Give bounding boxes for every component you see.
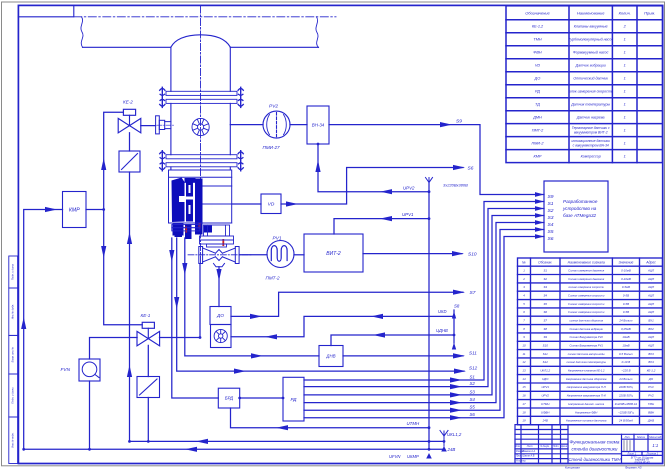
svg-text:UРV2: UРV2	[541, 394, 549, 398]
svg-text:Форвакуумный насос: Форвакуумный насос	[573, 51, 609, 55]
svg-text:ВХ2: ВХ2	[648, 327, 654, 331]
svg-text:PV1: PV1	[648, 385, 654, 389]
svg-text:Подп. и дата: Подп. и дата	[11, 263, 15, 280]
svg-text:24 Вольт: 24 Вольт	[618, 377, 633, 381]
wire cross to DO sensor	[218, 267, 220, 307]
svg-text:VD: VD	[535, 64, 541, 68]
svg-text:Значение: Значение	[619, 261, 634, 265]
svg-text:Взам. инв.№: Взам. инв.№	[11, 347, 15, 363]
svg-text:Оптический датчик: Оптический датчик	[573, 77, 608, 81]
left margin graph boxes	[9, 256, 18, 464]
svg-text:Подп.: Подп.	[553, 445, 559, 448]
speed measuring unit RD box	[283, 377, 304, 421]
svg-text:КЕ-1: КЕ-1	[141, 313, 151, 318]
svg-text:Сигнал измерения давления: Сигнал измерения давления	[568, 277, 604, 281]
svg-text:АЦП: АЦП	[647, 285, 655, 289]
wire UKD to rotation sensor	[231, 316, 454, 336]
svg-text:сигнал датчика температуры: сигнал датчика температуры	[566, 360, 606, 364]
svg-text:0,05мВ: 0,05мВ	[621, 327, 631, 331]
svg-text:1: 1	[624, 38, 626, 42]
wire KE-2 drain riser	[129, 133, 131, 442]
svg-text:Сигнал измерения скорости: Сигнал измерения скорости	[568, 310, 605, 314]
bellows box under KE-2	[119, 151, 140, 172]
vessel flange pair 2	[160, 151, 244, 171]
wire BRD to RD	[240, 397, 283, 399]
svg-text:UДНВ: UДНВ	[436, 328, 448, 333]
svg-text:S7: S7	[470, 290, 476, 296]
svg-text:Датчик нагрева: Датчик нагрева	[576, 116, 605, 120]
svg-text:UКМР: UКМР	[407, 454, 419, 459]
svg-text:VD: VD	[268, 201, 275, 207]
vessel left nozzle flange	[156, 116, 171, 134]
svg-text:Дата: Дата	[560, 446, 568, 448]
svg-text:ВИТ-2: ВИТ-2	[326, 251, 341, 257]
svg-text:0-5В: 0-5В	[623, 293, 629, 297]
svg-text:ДО: ДО	[216, 313, 224, 318]
wire KMP to air riser	[86, 209, 104, 211]
ionization vacuum meter VN-34 box	[307, 106, 329, 144]
svg-text:1: 1	[624, 64, 626, 68]
svg-text:БРД: БРД	[225, 396, 234, 401]
svg-text:0-10мВ: 0-10мВ	[621, 268, 631, 272]
svg-text:UКD: UКD	[438, 309, 447, 314]
wire S12 from pump	[177, 238, 464, 371]
svg-text:базе ATMega32: базе ATMega32	[563, 213, 597, 218]
svg-text:ФВН: ФВН	[533, 51, 542, 55]
wire S4 from RD to U1	[304, 223, 544, 403]
wire compressor air to KE-2 actuator	[104, 112, 143, 324]
svg-text:Иванов А.А.: Иванов А.А.	[523, 450, 537, 453]
svg-text:Подп. и дата: Подп. и дата	[11, 387, 15, 404]
svg-text:S3: S3	[548, 215, 554, 221]
svg-text:S3: S3	[543, 285, 547, 289]
supply line 24V	[24, 448, 444, 450]
wire KE-1 to cross fitting	[160, 264, 201, 338]
wire vessel to PV2	[230, 124, 263, 126]
valve KE-1	[137, 322, 160, 346]
svg-text:24 В/50мА: 24 В/50мА	[618, 419, 633, 423]
svg-text:ТМН: ТМН	[533, 38, 542, 42]
svg-text:S1: S1	[543, 268, 547, 272]
svg-text:ПМИ-2: ПМИ-2	[531, 142, 544, 146]
svg-text:ДНВ: ДНВ	[647, 419, 654, 423]
svg-text:Напряжение двигат. насоса: Напряжение двигат. насоса	[568, 402, 604, 406]
svg-text:Инв.№ подл.: Инв.№ подл.	[11, 432, 15, 448]
svg-text:S6: S6	[543, 310, 547, 314]
svg-text:UРV1: UРV1	[541, 385, 549, 389]
signal S8 riser	[453, 310, 455, 343]
svg-text:0-5В: 0-5В	[623, 302, 629, 306]
svg-text:S3: S3	[470, 389, 476, 394]
svg-text:РД: РД	[535, 90, 540, 94]
svg-text:S5: S5	[470, 405, 476, 410]
svg-text:PV1: PV1	[273, 236, 282, 242]
svg-text:ПМИ-27: ПМИ-27	[263, 145, 281, 150]
svg-text:АЦП: АЦП	[647, 268, 655, 272]
svg-text:Напряжение вакуумметра П-П: Напряжение вакуумметра П-П	[567, 385, 606, 389]
wire KE-2 to vessel nozzle	[141, 125, 156, 127]
svg-text:220В 50Гц: 220В 50Гц	[618, 385, 633, 389]
svg-text:Блок измерения скорости: Блок измерения скорости	[569, 90, 613, 94]
TMN lower dark parts	[175, 224, 213, 239]
vessel walls upper	[171, 47, 230, 170]
svg-text:Сигнал датчика вибрации: Сигнал датчика вибрации	[569, 327, 603, 331]
wire S1 from RD to U1	[304, 202, 544, 381]
wire pump to BRD	[172, 238, 219, 398]
valve KE-2	[118, 109, 141, 133]
vessel sight glass viewport	[192, 118, 209, 135]
svg-text:10: 10	[522, 344, 526, 348]
svg-text:АЦП: АЦП	[647, 335, 655, 339]
svg-text:24В: 24В	[542, 419, 548, 423]
svg-text:КЕ-2: КЕ-2	[123, 100, 133, 105]
power source symbol 3x220V	[426, 178, 433, 184]
svg-text:Сигнал Вакуумметра PV2: Сигнал Вакуумметра PV2	[570, 335, 604, 339]
svg-text:S12: S12	[543, 360, 549, 364]
vessel flange pair 1	[160, 87, 244, 107]
svg-text:1:1: 1:1	[652, 443, 658, 448]
svg-text:S5: S5	[548, 229, 554, 235]
svg-text:S2: S2	[470, 381, 476, 386]
svg-text:ТД: ТД	[535, 103, 540, 107]
svg-text:Масштаб: Масштаб	[649, 435, 662, 439]
wire PV1 to VIT-2	[294, 254, 304, 256]
wire KE-1 drain riser	[147, 345, 149, 441]
svg-text:КМР: КМР	[69, 207, 80, 213]
svg-text:S5: S5	[543, 302, 547, 306]
svg-text:12: 12	[522, 360, 526, 364]
svg-text:S4: S4	[470, 397, 476, 402]
svg-text:S2: S2	[543, 277, 547, 281]
wire S10 from VIT-2	[363, 253, 462, 255]
svg-text:Сигнал измерения скорости: Сигнал измерения скорости	[568, 302, 605, 306]
wire FVN discharge down	[89, 381, 91, 449]
maintenance red marks	[185, 224, 224, 247]
svg-text:1: 1	[624, 77, 626, 81]
svg-text:S6: S6	[468, 166, 474, 172]
svg-text:0-5В: 0-5В	[623, 310, 629, 314]
svg-text:S9: S9	[543, 335, 547, 339]
svg-text:ВХ3: ВХ3	[648, 352, 654, 356]
ceiling axis dash-dot line	[74, 16, 336, 18]
wire S7 from DO	[231, 292, 463, 316]
UKL supply antenna symbol	[440, 431, 448, 442]
vessel axis dash-dot	[200, 6, 202, 264]
svg-text:Датчик температуры: Датчик температуры	[570, 103, 610, 107]
thermocouple gauge PV1 (PMT-2)	[267, 241, 294, 268]
ceiling slab top-left box	[18, 5, 73, 16]
svg-text:Разработанное: Разработанное	[563, 199, 598, 204]
svg-text:19: 19	[522, 419, 526, 423]
break line left	[81, 17, 83, 48]
svg-text:ВХ4: ВХ4	[648, 360, 654, 364]
wire UPV1 to VIT-2	[334, 219, 429, 234]
svg-text:с вакуумметром ВН-34: с вакуумметром ВН-34	[573, 144, 609, 148]
svg-text:сигнал измерения скорости: сигнал измерения скорости	[568, 286, 604, 289]
svg-text:Обознач.: Обознач.	[538, 261, 552, 265]
wire S3 from RD to U1	[304, 216, 544, 395]
svg-text:0-10мВ: 0-10мВ	[621, 277, 631, 281]
svg-text:АЦП: АЦП	[647, 293, 655, 297]
svg-text:Адрес: Адрес	[645, 261, 656, 265]
svg-text:2: 2	[522, 277, 525, 281]
parts list table	[506, 6, 663, 163]
svg-text:ФВН: ФВН	[648, 410, 655, 414]
svg-text:ДМН: ДМН	[532, 116, 542, 120]
svg-text:Датчик вибрации: Датчик вибрации	[575, 64, 606, 68]
svg-text:24 Вольт: 24 Вольт	[618, 319, 633, 323]
ceiling bottom edge	[83, 46, 319, 48]
title block	[515, 425, 663, 464]
compressor KMP box	[63, 192, 87, 228]
vacuum chamber vessel dome	[171, 35, 230, 47]
svg-text:S1: S1	[548, 201, 554, 207]
svg-text:18: 18	[522, 410, 526, 414]
svg-text:ПМТ-2: ПМТ-2	[266, 276, 280, 281]
svg-text:0-10 В: 0-10 В	[622, 360, 631, 364]
svg-text:0-5 Вольт: 0-5 Вольт	[619, 352, 634, 356]
svg-text:Масса: Масса	[637, 435, 645, 439]
svg-text:UPV1: UPV1	[402, 212, 414, 217]
svg-text:Листов 1: Листов 1	[645, 452, 658, 456]
svg-text:Н.контр.: Н.контр.	[516, 459, 526, 462]
svg-text:~220В 50Гц: ~220В 50Гц	[618, 410, 634, 414]
svg-text:24В: 24В	[447, 447, 456, 452]
wire UTMN to BRD	[231, 408, 430, 428]
svg-text:UФВН: UФВН	[541, 410, 550, 414]
svg-text:UТМН: UТМН	[407, 421, 421, 426]
svg-text:UКЛ1,2: UКЛ1,2	[540, 369, 550, 373]
control line UKL1,2	[130, 440, 445, 442]
svg-text:ДО: ДО	[648, 377, 654, 381]
svg-text:группа АС-41: группа АС-41	[634, 461, 650, 464]
svg-text:сигнал датчика напора воды: сигнал датчика напора воды	[568, 352, 605, 356]
svg-text:Изм.: Изм.	[516, 446, 521, 448]
svg-text:Компрессор: Компрессор	[581, 154, 601, 158]
svg-text:Формат А3: Формат А3	[625, 466, 642, 470]
wire PV2 to VN-34	[290, 124, 307, 126]
svg-text:Турбомолекулярный насос: Турбомолекулярный насос	[568, 38, 613, 42]
ATMega32 device box U1	[544, 181, 608, 252]
svg-text:Термопарные датчики с: Термопарные датчики с	[572, 126, 610, 130]
svg-text:Сигнал измерения давления: Сигнал измерения давления	[568, 268, 604, 272]
wire pump to VD	[232, 203, 261, 205]
signal list table	[518, 258, 663, 425]
svg-text:1: 1	[624, 154, 626, 158]
svg-text:S9: S9	[548, 194, 554, 200]
bellows box under KE-1	[137, 377, 160, 398]
power bus 3x220V	[428, 183, 430, 449]
svg-text:РД: РД	[291, 397, 298, 402]
svg-text:PV2: PV2	[269, 104, 278, 110]
svg-text:Лист 1: Лист 1	[626, 452, 636, 456]
svg-text:ДО: ДО	[534, 77, 541, 81]
svg-text:Напряжение питания датчиков: Напряжение питания датчиков	[566, 419, 607, 423]
svg-text:Наименование сигнала: Наименование сигнала	[568, 261, 605, 265]
svg-text:~220 В: ~220 В	[621, 369, 630, 373]
svg-text:S1: S1	[470, 375, 476, 380]
svg-text:КЕ-1,2: КЕ-1,2	[647, 369, 656, 373]
TMN rotor dark cutaway	[172, 178, 203, 236]
svg-text:стенда диагностики: стенда диагностики	[572, 446, 618, 451]
wire compressor inlet	[24, 210, 63, 450]
svg-text:S6: S6	[470, 412, 476, 417]
svg-text:S12: S12	[469, 366, 478, 371]
svg-text:UFVN: UFVN	[389, 454, 401, 459]
svg-text:ПМТ-2: ПМТ-2	[532, 129, 544, 133]
svg-text:S11: S11	[543, 352, 548, 356]
svg-text:ВН-34: ВН-34	[312, 123, 325, 128]
svg-text:устройство на: устройство на	[562, 205, 597, 211]
rotation sensor motor box	[211, 325, 232, 348]
svg-text:Напряжение ФВН: Напряжение ФВН	[575, 410, 597, 414]
svg-text:3х220Вх380В: 3х220Вх380В	[443, 183, 468, 188]
svg-text:0-5мВ: 0-5мВ	[622, 285, 630, 289]
wire S2 from RD to U1	[304, 209, 544, 387]
wire FVN suction to KE-1	[90, 338, 138, 360]
svg-text:10мВ: 10мВ	[622, 335, 629, 339]
wire UDNV to DNV	[331, 335, 454, 346]
forevacuum pump FVN box	[79, 359, 100, 381]
svg-text:Лист: Лист	[526, 446, 533, 448]
svg-text:№: №	[522, 261, 526, 265]
svg-text:S10: S10	[468, 252, 477, 258]
svg-text:16: 16	[522, 394, 526, 398]
svg-text:S8: S8	[543, 327, 547, 331]
svg-text:PV2: PV2	[648, 394, 654, 398]
wire S6 from RD to U1	[304, 237, 544, 418]
svg-text:Шахов А.В.: Шахов А.В.	[523, 455, 536, 458]
cross fitting axis dash-dot	[188, 254, 251, 256]
wire S5 from RD to U1	[304, 230, 544, 411]
svg-text:N докум.: N докум.	[540, 445, 550, 448]
svg-text:ВХ1: ВХ1	[648, 319, 654, 323]
svg-text:S10: S10	[543, 344, 549, 348]
svg-text:1: 1	[624, 116, 626, 120]
turbomolecular pump TMN casing	[169, 170, 232, 223]
svg-text:вакуумметром ВИТ-2: вакуумметром ВИТ-2	[574, 131, 608, 135]
svg-text:Прим.: Прим.	[644, 10, 655, 15]
wire pump to DNV	[185, 238, 319, 356]
svg-text:S4: S4	[543, 293, 547, 297]
svg-text:S11: S11	[469, 350, 477, 355]
svg-text:1: 1	[624, 51, 626, 55]
flow and signal arrows	[45, 207, 57, 212]
svg-text:АЦП: АЦП	[647, 277, 655, 281]
svg-text:S7: S7	[543, 319, 547, 323]
svg-text:Сигнал измерения скорости: Сигнал измерения скорости	[568, 293, 605, 297]
optical sensor DO box	[210, 307, 231, 325]
24V supply arrow symbol	[443, 441, 445, 446]
svg-text:UДО: UДО	[542, 377, 549, 381]
svg-text:11: 11	[522, 352, 525, 356]
wire cross to PV1	[239, 254, 267, 256]
svg-text:Инв.№ дубл.: Инв.№ дубл.	[11, 304, 15, 320]
svg-text:1: 1	[624, 103, 626, 107]
svg-text:Лит.: Лит.	[623, 435, 630, 439]
svg-text:1: 1	[624, 129, 626, 133]
svg-text:15: 15	[522, 385, 526, 389]
wire S9 from VN-34 to U1	[329, 125, 544, 195]
svg-text:14: 14	[522, 377, 526, 381]
svg-text:сигнал датчика оборотов: сигнал датчика оборотов	[569, 319, 603, 323]
svg-text:Сигнал Вакуумметра PV1: Сигнал Вакуумметра PV1	[570, 344, 604, 348]
svg-text:S9: S9	[456, 119, 462, 125]
svg-text:17: 17	[522, 402, 526, 406]
svg-text:АЦП: АЦП	[647, 310, 655, 314]
pump base plates	[169, 223, 234, 247]
svg-text:Напряжение клапанов КЕ-1,2: Напряжение клапанов КЕ-1,2	[568, 369, 605, 373]
svg-text:АЦП: АЦП	[647, 344, 655, 348]
svg-text:3х220В+380В 2А: 3х220В+380В 2А	[615, 402, 638, 406]
svg-text:Функциональная схема: Функциональная схема	[570, 440, 620, 445]
svg-text:КЕ-1,2: КЕ-1,2	[532, 25, 544, 29]
svg-text:S6: S6	[548, 236, 554, 242]
wire S11 from DNV	[343, 355, 463, 357]
svg-text:КМР: КМР	[534, 154, 542, 158]
svg-text:АЦП: АЦП	[647, 302, 655, 306]
cross fitting below pump	[199, 247, 239, 267]
svg-text:13: 13	[522, 369, 526, 373]
svg-text:Напряжение вакуумметра П-И: Напряжение вакуумметра П-И	[567, 394, 606, 398]
svg-text:Обозначение: Обозначение	[525, 10, 550, 15]
svg-text:UТМН: UТМН	[541, 402, 550, 406]
svg-text:S4: S4	[548, 222, 554, 228]
svg-text:1: 1	[624, 142, 626, 146]
svg-text:ДНВ: ДНВ	[325, 354, 335, 359]
svg-text:Напряжение датчика оборотов: Напряжение датчика оборотов	[566, 377, 607, 381]
svg-text:ТМН: ТМН	[648, 402, 655, 406]
svg-text:Стенд диагностики ТМН: Стенд диагностики ТМН	[568, 457, 621, 462]
svg-text:10мВ: 10мВ	[622, 344, 629, 348]
vibration sensor VD box	[261, 194, 281, 214]
svg-text:Наименование: Наименование	[577, 10, 605, 15]
svg-text:UКL1,2: UКL1,2	[447, 432, 462, 437]
svg-text:Клапаны вакуумные: Клапаны вакуумные	[574, 25, 608, 29]
svg-text:1: 1	[624, 90, 626, 94]
wire UPV2 to VN-34	[318, 144, 429, 192]
wire S6 from VD	[281, 168, 463, 205]
svg-text:S8: S8	[454, 304, 460, 309]
junction nodes	[102, 208, 105, 211]
break line right	[316, 17, 319, 48]
svg-text:Копировал: Копировал	[565, 466, 580, 470]
svg-text:S2: S2	[548, 208, 554, 214]
svg-text:UPV2: UPV2	[403, 185, 415, 190]
svg-text:Колич.: Колич.	[619, 10, 631, 15]
ionization gauge PV2 (PMI-27)	[263, 111, 290, 138]
svg-text:220В 50Гц: 220В 50Гц	[618, 394, 633, 398]
thermocouple vacuum meter VIT-2 box	[304, 234, 363, 272]
svg-text:ионизационные датчики: ионизационные датчики	[572, 139, 610, 143]
water pressure sensor DNV box	[319, 346, 343, 367]
svg-text:FVN: FVN	[61, 367, 71, 373]
motor drive unit BRD box	[218, 388, 239, 408]
